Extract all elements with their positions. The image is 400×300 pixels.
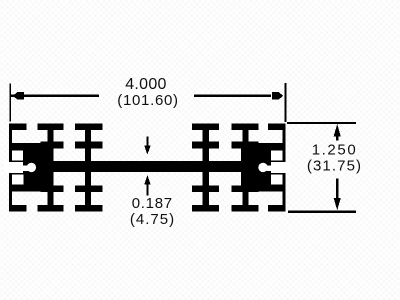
heatsink web (central horizontal plate) [9,161,286,172]
fin C lower middle bar [192,186,219,193]
width dimension line right segment [194,95,271,97]
width dimension left arrowhead [13,92,24,100]
height dimension top arrow [334,124,341,137]
fin A stem [48,124,54,212]
left slot neck (white) [23,166,28,171]
left top pocket notch (white) [12,150,23,160]
fin A upper middle bar [41,142,64,149]
fin A bottom cap [38,205,64,212]
svg-text:(4.75): (4.75) [130,211,175,228]
fin D bottom cap [232,205,259,212]
web thickness dimension lower arrowhead (points up) [144,175,150,184]
width dimension line left segment [11,95,99,97]
left end wall [9,124,12,212]
left bottom pocket notch (white) [12,175,24,185]
fin B top cap [75,124,103,131]
height dimension top extension line [287,122,356,124]
fin B bottom cap [75,205,103,212]
left end block mass [9,143,54,192]
right end bottom tab bar [268,205,286,212]
web thickness dimension upper arrowhead (points down) [144,146,150,155]
fin D upper middle bar [232,142,259,149]
fin C top cap [192,124,219,131]
fin A lower middle bar [41,186,64,193]
fin D stem [243,124,249,212]
right end top tab bar [268,124,286,130]
fin C upper middle bar [192,142,219,149]
web thickness dimension upper arrow shaft [146,136,148,146]
width dimension right extension line [285,83,287,122]
svg-text:0.187: 0.187 [132,195,173,212]
right mounting slot (white) [271,162,290,173]
right end wall [282,124,285,212]
fin D lower middle bar [232,186,259,193]
fin B lower middle bar [75,186,103,193]
fin A top cap [38,124,64,131]
svg-text:(31.75): (31.75) [307,157,362,174]
fin C stem [203,124,210,212]
svg-text:(101.60): (101.60) [117,92,178,109]
width dimension left extension line [9,84,11,122]
right screw hole (white) [258,163,267,172]
right slot neck (white) [266,166,271,171]
svg-text:1.250: 1.250 [312,141,358,158]
fin C bottom cap [192,205,219,212]
left end top tab bar [9,124,27,130]
svg-text:4.000: 4.000 [125,76,167,93]
left mounting slot (white) [4,162,23,173]
right top pocket notch (white) [271,150,282,160]
right bottom pocket notch (white) [271,175,283,185]
left screw hole (white) [27,163,36,172]
fin D top cap [232,124,259,131]
height dimension bottom arrow [336,179,338,202]
fin B upper middle bar [75,142,103,149]
fin B stem [85,124,91,212]
right end block mass [241,143,286,192]
left end bottom tab bar [9,205,27,212]
width dimension right arrowhead [272,92,283,100]
web thickness dimension lower arrow shaft [146,183,148,195]
height dimension bottom extension line [288,211,356,213]
